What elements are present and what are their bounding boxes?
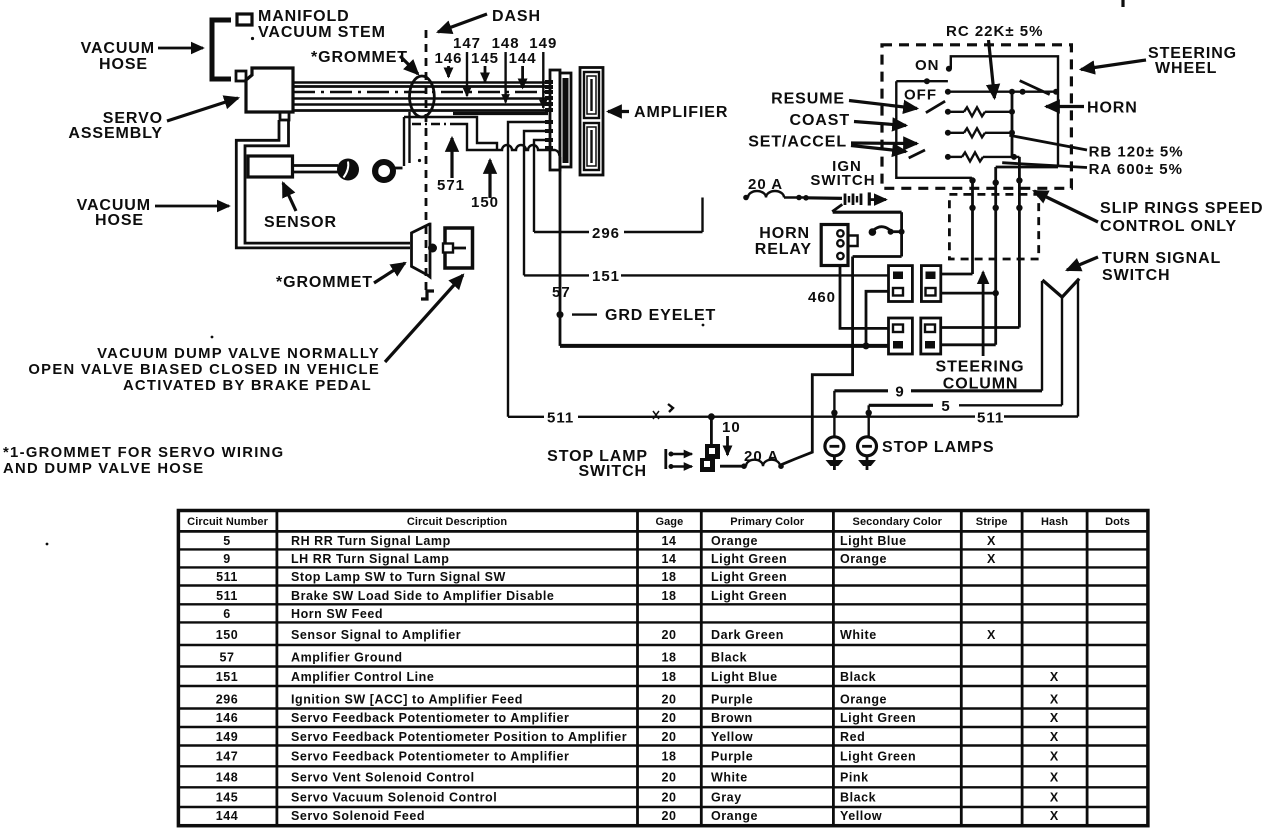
svg-text:AMPLIFIER: AMPLIFIER bbox=[634, 104, 728, 121]
table row circuit 148 bbox=[216, 771, 1059, 785]
svg-text:6: 6 bbox=[223, 607, 231, 621]
label VACUUM HOSE (top) with arrow bbox=[81, 40, 203, 73]
svg-text:X: X bbox=[1050, 750, 1059, 764]
wire 460 from horn relay to connector bbox=[808, 266, 889, 329]
svg-text:Orange: Orange bbox=[711, 534, 758, 548]
svg-text:RA 600± 5%: RA 600± 5% bbox=[1089, 161, 1183, 178]
svg-text:Amplifier Ground: Amplifier Ground bbox=[291, 651, 403, 665]
svg-text:Black: Black bbox=[840, 791, 876, 805]
stop lamp switch drop from 511 bbox=[708, 413, 715, 444]
svg-text:Orange: Orange bbox=[840, 693, 887, 707]
svg-text:511: 511 bbox=[216, 589, 238, 603]
svg-text:Servo Feedback Potentiometer t: Servo Feedback Potentiometer to Amplifie… bbox=[291, 750, 569, 764]
svg-text:*GROMMET: *GROMMET bbox=[276, 274, 373, 291]
label TURN SIGNAL SWITCH bbox=[1102, 250, 1221, 284]
svg-text:HORN: HORN bbox=[1087, 100, 1138, 117]
svg-text:ON: ON bbox=[915, 57, 940, 74]
svg-text:Horn SW Feed: Horn SW Feed bbox=[291, 607, 383, 621]
wire label 146 with arrow bbox=[434, 50, 462, 77]
svg-text:ACTIVATED BY BRAKE PEDAL: ACTIVATED BY BRAKE PEDAL bbox=[123, 378, 372, 394]
wire 151 horizontal run bbox=[524, 268, 889, 285]
svg-text:14: 14 bbox=[661, 534, 676, 548]
svg-text:RESUME: RESUME bbox=[771, 91, 845, 108]
label vacuum dump valve text block with arrow bbox=[28, 275, 463, 394]
label AMPLIFIER with arrow bbox=[608, 104, 728, 121]
wire 57 thick ground run to connector bbox=[560, 344, 890, 348]
grommet 1 (on dash line at harness) bbox=[410, 76, 435, 117]
table row circuit 511b bbox=[216, 589, 787, 603]
svg-text:Sensor Signal to Amplifier: Sensor Signal to Amplifier bbox=[291, 628, 461, 642]
vacuum dump valve funnel bbox=[412, 224, 438, 277]
label STEERING COLUMN with arrow bbox=[936, 272, 1025, 393]
svg-text:Orange: Orange bbox=[840, 552, 887, 566]
svg-text:White: White bbox=[711, 771, 748, 785]
svg-text:X: X bbox=[1050, 791, 1059, 805]
svg-text:20: 20 bbox=[661, 791, 676, 805]
svg-text:Dots: Dots bbox=[1105, 516, 1130, 528]
wire step from sensor to junction row bbox=[404, 117, 497, 150]
steering column wire d bbox=[941, 343, 996, 346]
wire 296 drop from connector bbox=[534, 140, 552, 232]
svg-text:20: 20 bbox=[661, 693, 676, 707]
svg-text:57: 57 bbox=[552, 284, 571, 301]
svg-text:X: X bbox=[1050, 670, 1059, 684]
svg-text:511: 511 bbox=[547, 410, 574, 427]
resistor RA row bbox=[945, 152, 1020, 161]
svg-text:X: X bbox=[1050, 693, 1059, 707]
svg-text:296: 296 bbox=[216, 693, 239, 707]
label COAST with arrow bbox=[790, 112, 907, 129]
svg-text:X: X bbox=[987, 552, 996, 566]
off-resume switch blade bbox=[926, 101, 945, 113]
svg-text:18: 18 bbox=[661, 670, 676, 684]
svg-text:HOSE: HOSE bbox=[95, 212, 144, 229]
svg-text:Light Blue: Light Blue bbox=[711, 670, 778, 684]
servo assembly box bbox=[236, 68, 293, 120]
svg-text:511: 511 bbox=[216, 570, 238, 584]
label MANIFOLD VACUUM STEM bbox=[258, 8, 386, 41]
svg-text:150: 150 bbox=[471, 194, 499, 211]
svg-text:Ignition SW [ACC] to Amplifier: Ignition SW [ACC] to Amplifier Feed bbox=[291, 693, 523, 707]
svg-text:Yellow: Yellow bbox=[711, 730, 753, 744]
svg-text:Red: Red bbox=[840, 730, 865, 744]
svg-text:146: 146 bbox=[216, 711, 239, 725]
svg-text:Servo Vent Solenoid Control: Servo Vent Solenoid Control bbox=[291, 771, 475, 785]
switch frame top branch (ON to right bus) bbox=[951, 56, 1058, 167]
svg-text:20: 20 bbox=[661, 771, 676, 785]
svg-text:Stripe: Stripe bbox=[976, 516, 1008, 528]
svg-text:Yellow: Yellow bbox=[840, 809, 882, 823]
stop lamp left bbox=[825, 437, 844, 470]
svg-text:SWITCH: SWITCH bbox=[1102, 267, 1171, 284]
scan marks on 511 wire bbox=[653, 404, 673, 419]
table row circuit 150 bbox=[216, 628, 996, 642]
label GROMMET 1 with arrow bbox=[311, 49, 418, 74]
svg-text:5: 5 bbox=[941, 398, 950, 415]
svg-text:511: 511 bbox=[977, 410, 1004, 427]
svg-text:145: 145 bbox=[216, 791, 239, 805]
table row circuit 145 bbox=[216, 791, 1059, 805]
svg-text:RELAY: RELAY bbox=[755, 241, 812, 258]
steering column wire a (to slip ring 1) bbox=[941, 273, 973, 276]
label SLIP RINGS SPEED CONTROL ONLY with arrow bbox=[1034, 191, 1263, 235]
connector block upper-right bbox=[921, 266, 940, 302]
svg-text:Brown: Brown bbox=[711, 711, 753, 725]
wire label 148 with leader bbox=[492, 35, 520, 103]
slip ring wire 3 bbox=[1016, 157, 1022, 328]
svg-text:145: 145 bbox=[471, 50, 499, 67]
svg-text:SLIP RINGS SPEED: SLIP RINGS SPEED bbox=[1100, 200, 1263, 217]
table row circuit 57 bbox=[219, 651, 747, 665]
label 10 with arrow bbox=[722, 419, 741, 455]
footnote grommet note bbox=[3, 445, 284, 477]
cable clamp 1 bbox=[337, 159, 359, 181]
svg-text:Black: Black bbox=[840, 670, 876, 684]
svg-text:Light Green: Light Green bbox=[840, 750, 916, 764]
svg-text:Gage: Gage bbox=[655, 516, 683, 528]
label SET/ACCEL with arrows bbox=[748, 134, 917, 152]
resistor RB row bbox=[945, 128, 1015, 137]
svg-text:X: X bbox=[1050, 730, 1059, 744]
svg-text:18: 18 bbox=[661, 750, 676, 764]
label SENSOR with arrow bbox=[264, 183, 337, 231]
label 571 with arrow bbox=[437, 138, 465, 194]
ignition switch bbox=[803, 158, 886, 212]
svg-text:Primary Color: Primary Color bbox=[730, 516, 805, 528]
switch frame left branch bbox=[896, 78, 972, 178]
rotor bus vertical bbox=[1011, 92, 1014, 158]
wire 9 run bbox=[831, 281, 1042, 437]
svg-text:460: 460 bbox=[808, 289, 836, 306]
label RC 22K 5% with arrow bbox=[946, 23, 1043, 98]
wire label 145 with arrow bbox=[471, 50, 499, 82]
stop lamp switch actuator arrows bbox=[666, 449, 692, 469]
wire label 144 with arrow bbox=[509, 50, 537, 88]
svg-text:144: 144 bbox=[216, 809, 239, 823]
svg-text:AND DUMP VALVE HOSE: AND DUMP VALVE HOSE bbox=[3, 461, 204, 477]
svg-text:Purple: Purple bbox=[711, 750, 753, 764]
svg-text:20: 20 bbox=[661, 628, 676, 642]
svg-text:5: 5 bbox=[223, 534, 231, 548]
ACC feed wire from ignition switch bbox=[781, 212, 905, 465]
svg-text:18: 18 bbox=[661, 651, 676, 665]
svg-text:Light Blue: Light Blue bbox=[840, 534, 907, 548]
horn switch blade bbox=[1020, 81, 1050, 95]
svg-text:HOSE: HOSE bbox=[99, 56, 148, 73]
svg-text:Brake SW Load Side to Amplifie: Brake SW Load Side to Amplifier Disable bbox=[291, 589, 554, 603]
svg-text:Purple: Purple bbox=[711, 693, 753, 707]
label GROMMET 2 with arrow bbox=[276, 263, 405, 291]
slip rings dashed box bbox=[949, 194, 1038, 259]
svg-text:Servo Feedback Potentiometer t: Servo Feedback Potentiometer to Amplifie… bbox=[291, 711, 569, 725]
svg-text:OPEN VALVE BIASED CLOSED IN VE: OPEN VALVE BIASED CLOSED IN VEHICLE bbox=[28, 362, 380, 378]
svg-text:Servo Vacuum Solenoid Control: Servo Vacuum Solenoid Control bbox=[291, 791, 497, 805]
svg-text:SET/ACCEL: SET/ACCEL bbox=[748, 134, 847, 151]
svg-text:146: 146 bbox=[434, 50, 462, 67]
svg-text:Light Green: Light Green bbox=[711, 552, 787, 566]
svg-text:VACUUM: VACUUM bbox=[81, 40, 155, 57]
amplifier box bbox=[580, 68, 603, 176]
svg-text:Black: Black bbox=[711, 651, 747, 665]
label HORN with arrow bbox=[1046, 100, 1138, 117]
set/accel blade bbox=[909, 150, 925, 158]
junction dot and branch up to connector bbox=[863, 291, 889, 349]
sensor box bbox=[248, 156, 293, 177]
dash panel dashed line bbox=[425, 30, 428, 290]
svg-text:Gray: Gray bbox=[711, 791, 742, 805]
svg-text:Servo Feedback Potentiometer P: Servo Feedback Potentiometer Position to… bbox=[291, 730, 627, 744]
steering wheel dashed boundary bbox=[882, 45, 1071, 189]
cable clamp 2 bbox=[375, 162, 403, 180]
manifold vacuum stem bracket bbox=[212, 14, 252, 79]
svg-text:GRD EYELET: GRD EYELET bbox=[605, 307, 716, 324]
svg-text:*GROMMET: *GROMMET bbox=[311, 49, 408, 66]
svg-text:14: 14 bbox=[661, 552, 676, 566]
label HORN RELAY bbox=[755, 225, 812, 258]
wire 296 horizontal run bbox=[534, 198, 703, 243]
svg-text:STEERING: STEERING bbox=[936, 359, 1025, 376]
label RESUME with arrow bbox=[771, 91, 917, 109]
scan artifact tick top right bbox=[1121, 0, 1124, 7]
svg-text:*1-GROMMET FOR SERVO WIRING: *1-GROMMET FOR SERVO WIRING bbox=[3, 445, 284, 461]
svg-text:18: 18 bbox=[661, 570, 676, 584]
svg-text:CONTROL ONLY: CONTROL ONLY bbox=[1100, 218, 1237, 235]
table row circuit 147 bbox=[216, 750, 1059, 764]
svg-text:571: 571 bbox=[437, 177, 465, 194]
svg-text:Amplifier Control Line: Amplifier Control Line bbox=[291, 670, 434, 684]
table row circuit 6 bbox=[223, 607, 383, 621]
connector block lower-right bbox=[921, 318, 941, 354]
table row circuit 144 bbox=[216, 809, 1059, 823]
vacuum hose run (double line from servo to dump valve) bbox=[236, 120, 410, 248]
stop lamp switch body bbox=[700, 444, 720, 472]
horn feed jumper with terminals bbox=[869, 227, 899, 236]
svg-text:White: White bbox=[840, 628, 877, 642]
label STOP LAMP SWITCH bbox=[547, 448, 648, 480]
table row circuit 9 bbox=[223, 552, 996, 566]
horn contact row bbox=[945, 89, 1059, 95]
svg-text:SWITCH: SWITCH bbox=[810, 172, 875, 189]
svg-text:SWITCH: SWITCH bbox=[578, 463, 647, 480]
slip ring wire 1 bbox=[969, 177, 975, 274]
table row circuit 146 bbox=[216, 711, 1059, 725]
svg-text:OFF: OFF bbox=[904, 87, 937, 104]
dump valve ground clip bbox=[421, 291, 434, 299]
svg-text:LH RR Turn Signal Lamp: LH RR Turn Signal Lamp bbox=[291, 552, 449, 566]
svg-text:Pink: Pink bbox=[840, 771, 869, 785]
scan speckles bbox=[46, 37, 705, 545]
svg-text:20: 20 bbox=[661, 730, 676, 744]
svg-text:20 A: 20 A bbox=[744, 448, 779, 465]
svg-text:X: X bbox=[1050, 809, 1059, 823]
wire label 149 with leader bbox=[529, 35, 557, 108]
svg-text:RC 22K± 5%: RC 22K± 5% bbox=[946, 23, 1043, 40]
svg-text:COAST: COAST bbox=[790, 112, 851, 129]
svg-text:SENSOR: SENSOR bbox=[264, 214, 337, 231]
svg-text:20: 20 bbox=[661, 711, 676, 725]
svg-text:20: 20 bbox=[661, 809, 676, 823]
label STEERING WHEEL with arrow bbox=[1081, 45, 1237, 77]
svg-text:10: 10 bbox=[722, 419, 741, 436]
label SERVO ASSEMBLY with arrow bbox=[68, 98, 238, 142]
horn relay bbox=[821, 225, 857, 266]
circuit table frame bbox=[178, 511, 1148, 826]
svg-text:Stop Lamp SW to Turn Signal SW: Stop Lamp SW to Turn Signal SW bbox=[291, 570, 506, 584]
svg-text:Dark Green: Dark Green bbox=[711, 628, 784, 642]
svg-text:148: 148 bbox=[216, 771, 239, 785]
svg-text:Hash: Hash bbox=[1041, 516, 1068, 528]
dump valve connector box bbox=[443, 228, 473, 268]
turn signal switch symbol bbox=[1042, 257, 1098, 297]
resistor RC row bbox=[945, 107, 1015, 116]
svg-text:147: 147 bbox=[216, 750, 239, 764]
svg-text:X: X bbox=[1050, 711, 1059, 725]
svg-text:Secondary Color: Secondary Color bbox=[853, 516, 943, 528]
svg-text:20 A: 20 A bbox=[748, 176, 783, 193]
steering column wire c (to slip ring 3) bbox=[941, 326, 1020, 329]
harness bundle wires servo to connector bbox=[293, 83, 552, 114]
table header row bbox=[187, 516, 1130, 528]
svg-text:TURN SIGNAL: TURN SIGNAL bbox=[1102, 250, 1221, 267]
20A fuse (stop lamp feed) bbox=[720, 448, 784, 469]
svg-text:VACUUM STEM: VACUUM STEM bbox=[258, 24, 386, 41]
svg-text:RH RR Turn Signal Lamp: RH RR Turn Signal Lamp bbox=[291, 534, 451, 548]
sensor drive cable bbox=[293, 166, 339, 173]
sensor wires up to harness bbox=[404, 112, 410, 166]
label DASH with arrow bbox=[438, 8, 541, 32]
svg-text:ASSEMBLY: ASSEMBLY bbox=[68, 125, 163, 142]
svg-text:MANIFOLD: MANIFOLD bbox=[258, 8, 350, 25]
wire 57 vertical with ground eyelet bbox=[552, 157, 571, 346]
svg-text:Orange: Orange bbox=[711, 809, 758, 823]
20A fuse (ignition feed) bbox=[743, 176, 806, 200]
steering column wire b (to slip ring 2) bbox=[941, 290, 999, 296]
table row circuit 296 bbox=[216, 693, 1059, 707]
junction row wire with humps bbox=[495, 145, 560, 156]
slip ring wire 2 bbox=[993, 167, 999, 345]
svg-text:WHEEL: WHEEL bbox=[1155, 60, 1217, 77]
bulkhead connector (harness to amplifier) bbox=[545, 70, 571, 170]
svg-text:149: 149 bbox=[216, 730, 239, 744]
svg-text:150: 150 bbox=[216, 628, 239, 642]
svg-text:9: 9 bbox=[223, 552, 231, 566]
svg-text:151: 151 bbox=[216, 670, 239, 684]
label 150 with arrow bbox=[471, 160, 499, 211]
svg-text:Light Green: Light Green bbox=[711, 589, 787, 603]
svg-text:296: 296 bbox=[592, 225, 620, 242]
svg-text:18: 18 bbox=[661, 589, 676, 603]
svg-text:151: 151 bbox=[592, 268, 620, 285]
right bus lower link bbox=[996, 166, 1058, 169]
svg-text:Servo Solenoid Feed: Servo Solenoid Feed bbox=[291, 809, 425, 823]
connector block upper-left bbox=[889, 266, 913, 302]
svg-text:Light Green: Light Green bbox=[840, 711, 916, 725]
svg-text:Light Green: Light Green bbox=[711, 570, 787, 584]
label RB 120 5% with leader bbox=[1009, 135, 1183, 160]
table row circuit 5 bbox=[223, 534, 996, 548]
label RA 600 5% with leader bbox=[1002, 161, 1183, 178]
stop lamp right bbox=[858, 437, 877, 470]
svg-text:RB 120± 5%: RB 120± 5% bbox=[1089, 144, 1184, 161]
svg-text:9: 9 bbox=[895, 384, 904, 401]
svg-text:STOP LAMPS: STOP LAMPS bbox=[882, 439, 994, 456]
svg-text:X: X bbox=[987, 628, 996, 642]
wire 571 dash-dot from grommet bbox=[412, 123, 451, 125]
table row circuit 511a bbox=[216, 570, 787, 584]
svg-text:Circuit Number: Circuit Number bbox=[187, 516, 268, 528]
svg-text:Circuit Description: Circuit Description bbox=[407, 516, 507, 528]
wire label 147 with leader bbox=[453, 35, 481, 96]
node ON contact bbox=[915, 57, 952, 74]
wire 5 run bbox=[866, 297, 1063, 437]
svg-text:DASH: DASH bbox=[492, 8, 541, 25]
label VACUUM HOSE (lower) with arrow bbox=[77, 197, 229, 229]
svg-text:57: 57 bbox=[219, 651, 234, 665]
svg-text:VACUUM DUMP VALVE NORMALLY: VACUUM DUMP VALVE NORMALLY bbox=[97, 346, 380, 362]
wire 151 drop from connector bbox=[524, 131, 552, 275]
connector block lower-left bbox=[889, 318, 913, 354]
table row circuit 149 bbox=[216, 730, 1059, 744]
wire 511 drop from connector bbox=[508, 122, 552, 417]
svg-text:144: 144 bbox=[509, 50, 537, 67]
svg-text:HORN: HORN bbox=[759, 225, 810, 242]
table row circuit 151 bbox=[216, 670, 1059, 684]
svg-text:X: X bbox=[987, 534, 996, 548]
label GRD EYELET bbox=[572, 307, 716, 324]
wire 511 long horizontal run bbox=[508, 279, 1078, 427]
svg-text:X: X bbox=[1050, 771, 1059, 785]
